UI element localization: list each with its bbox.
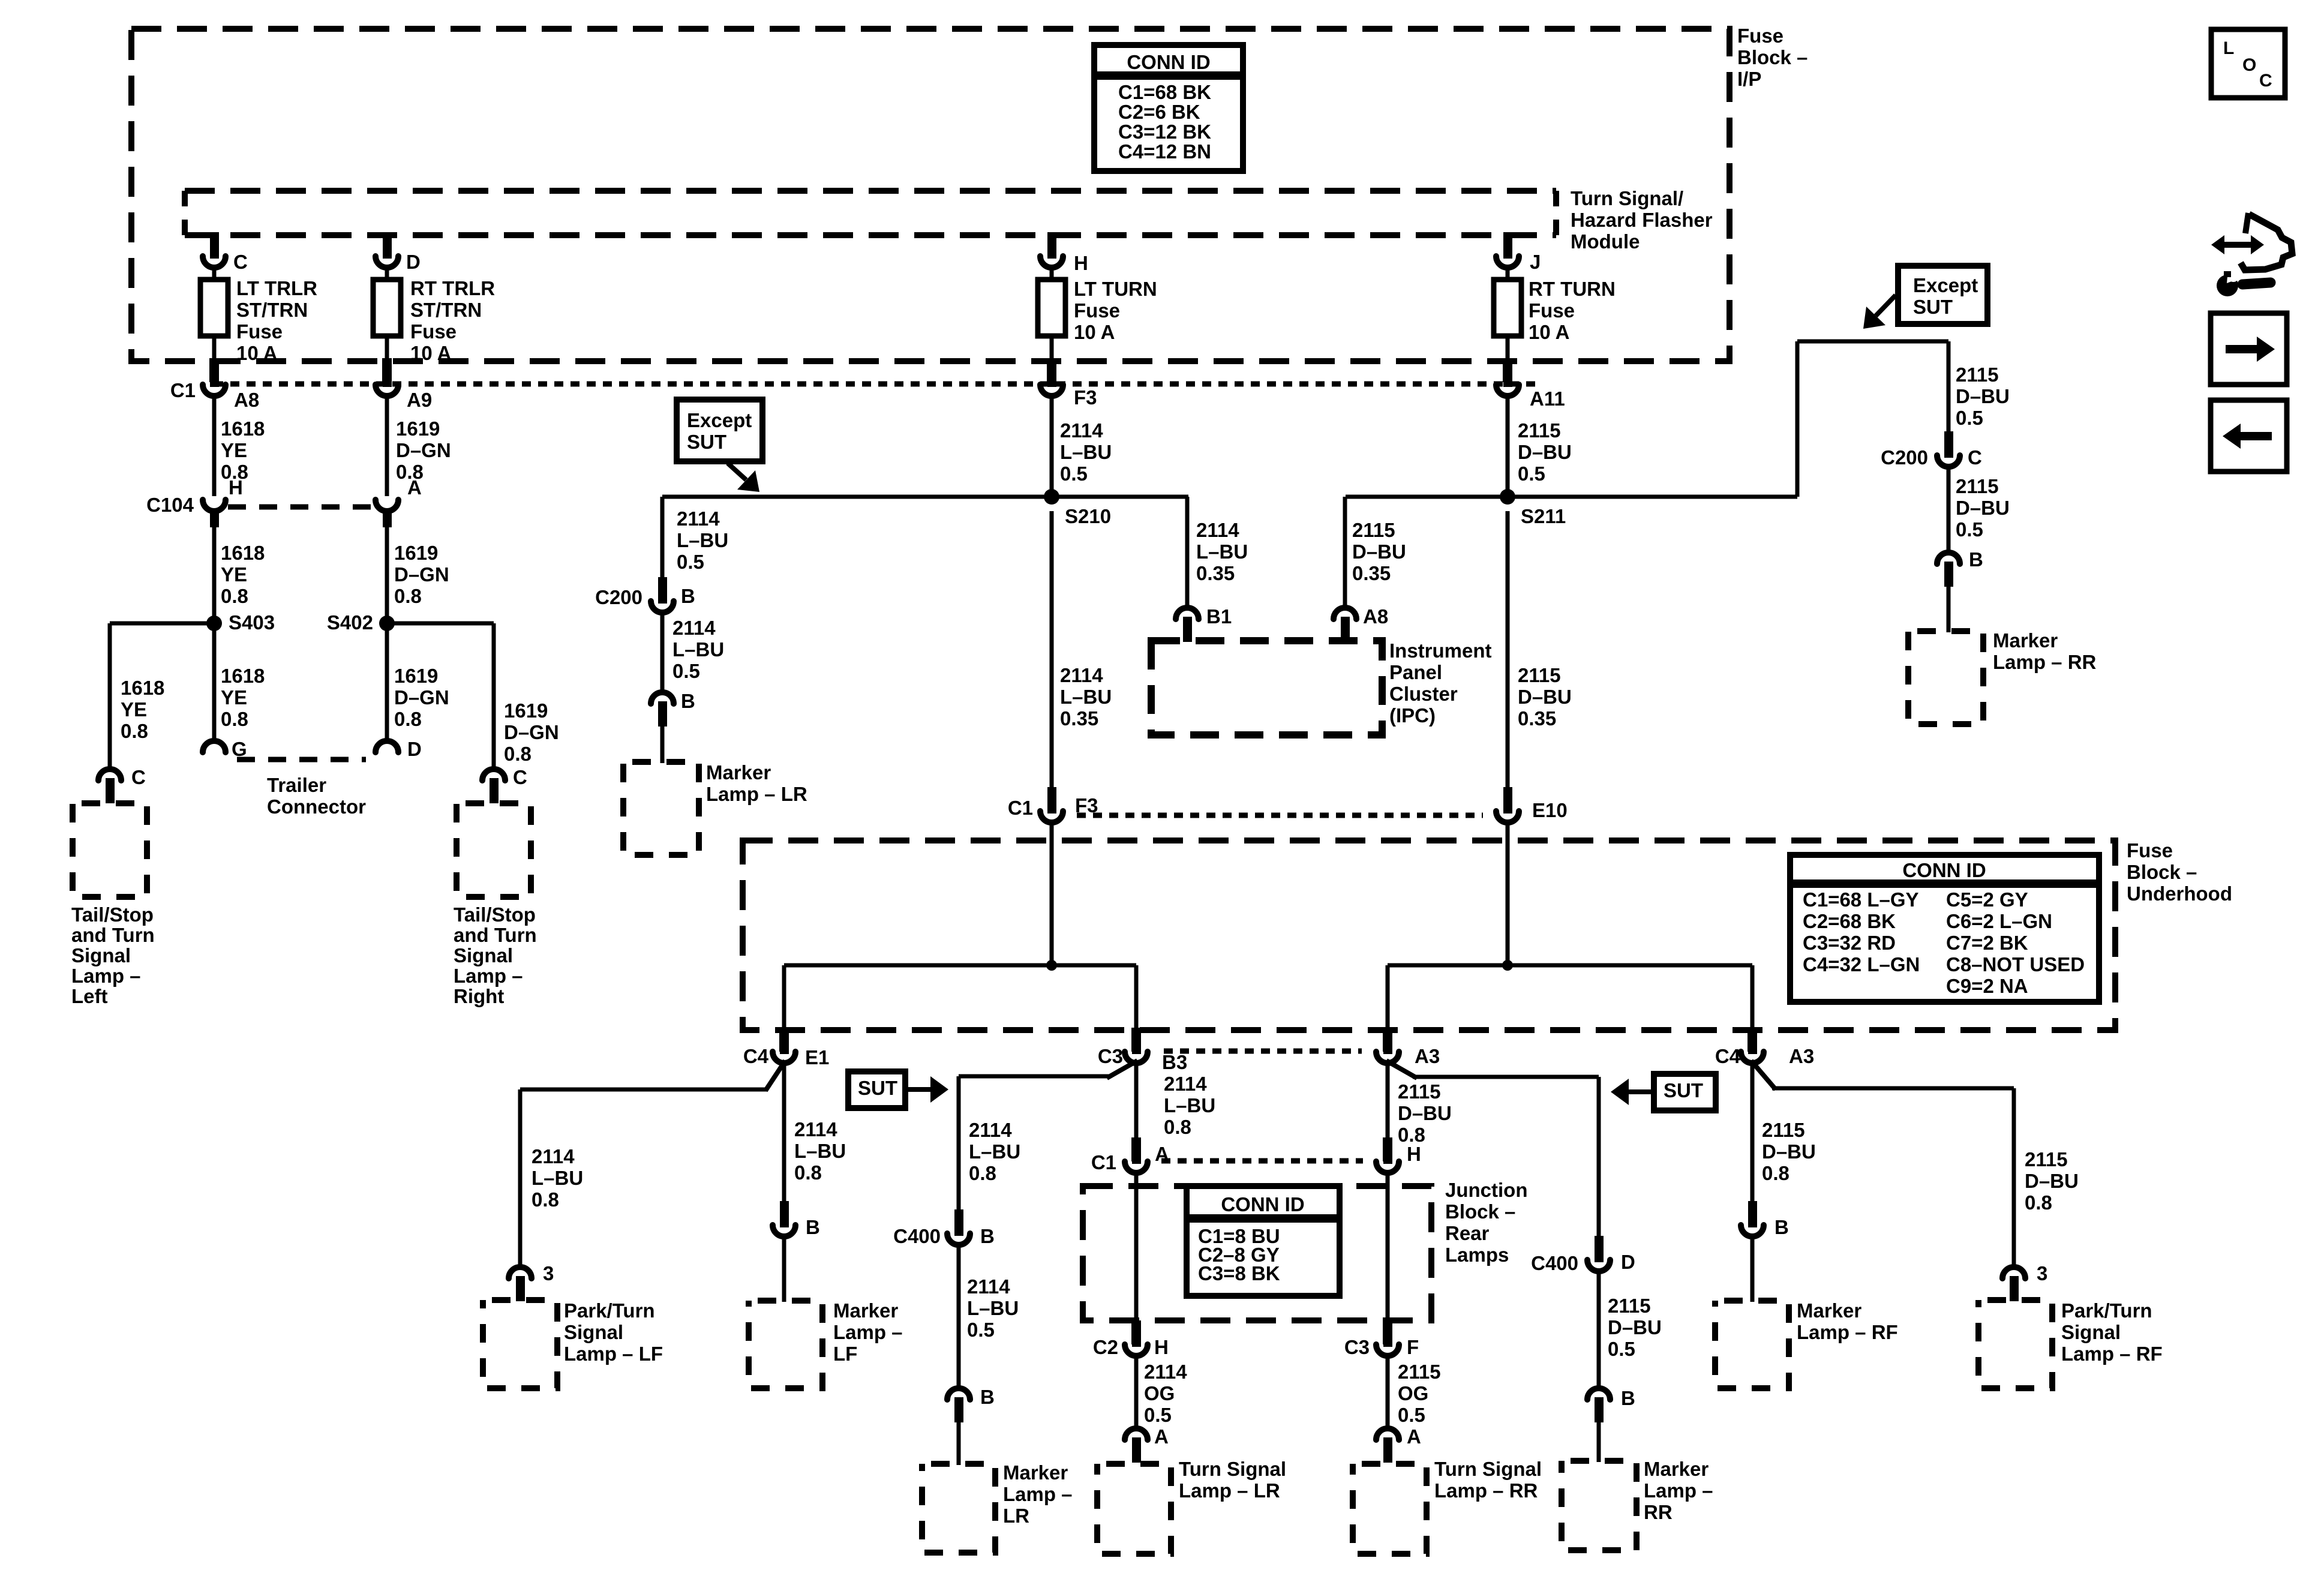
svg-text:Turn Signal: Turn Signal (1434, 1458, 1542, 1480)
svg-text:Block –: Block – (2127, 861, 2197, 883)
svg-text:C: C (513, 766, 527, 788)
svg-text:D–BU: D–BU (1956, 497, 2010, 519)
svg-text:I/P: I/P (1737, 68, 1761, 90)
svg-text:0.35: 0.35 (1196, 562, 1235, 584)
svg-text:C8–NOT USED: C8–NOT USED (1946, 953, 2085, 975)
svg-text:Left: Left (71, 985, 108, 1007)
svg-text:1619: 1619 (394, 665, 438, 687)
svg-text:L–BU: L–BU (1060, 686, 1112, 708)
svg-text:0.5: 0.5 (1518, 463, 1545, 485)
svg-text:Hazard Flasher: Hazard Flasher (1571, 209, 1713, 231)
svg-text:0.5: 0.5 (1144, 1404, 1172, 1426)
svg-text:L–BU: L–BU (969, 1140, 1020, 1163)
svg-text:2114: 2114 (967, 1275, 1010, 1298)
svg-text:0.35: 0.35 (1352, 562, 1391, 584)
svg-text:A9: A9 (407, 389, 432, 411)
svg-text:D–BU: D–BU (1518, 686, 1572, 708)
svg-text:0.8: 0.8 (1164, 1116, 1191, 1138)
svg-text:2115: 2115 (1518, 664, 1561, 686)
svg-text:2114: 2114 (794, 1118, 837, 1140)
svg-text:0.5: 0.5 (1956, 518, 1983, 541)
svg-text:RT TRLR: RT TRLR (410, 277, 495, 299)
svg-text:1618: 1618 (121, 677, 164, 699)
svg-text:F: F (1407, 1336, 1419, 1358)
svg-text:A: A (1154, 1425, 1169, 1448)
svg-text:0.5: 0.5 (1398, 1404, 1425, 1426)
svg-text:(IPC): (IPC) (1389, 704, 1436, 727)
svg-text:Marker: Marker (833, 1299, 898, 1322)
svg-text:A3: A3 (1415, 1045, 1440, 1067)
svg-text:0.8: 0.8 (2025, 1191, 2052, 1214)
svg-text:C: C (131, 766, 146, 788)
svg-text:Cluster: Cluster (1389, 683, 1458, 705)
svg-text:A: A (1155, 1143, 1169, 1165)
svg-text:YE: YE (121, 698, 147, 721)
svg-text:LF: LF (833, 1343, 857, 1365)
svg-text:C7=2 BK: C7=2 BK (1946, 932, 2028, 954)
svg-text:2115: 2115 (1608, 1295, 1651, 1317)
svg-text:C: C (233, 251, 248, 273)
svg-text:1619: 1619 (504, 700, 548, 722)
svg-text:Lamp – RF: Lamp – RF (1797, 1321, 1898, 1343)
svg-text:H: H (1074, 252, 1088, 274)
svg-text:Fuse: Fuse (236, 320, 283, 343)
svg-text:B: B (1774, 1216, 1789, 1238)
svg-text:2114: 2114 (1060, 664, 1103, 686)
svg-text:Lamp –: Lamp – (71, 965, 141, 987)
svg-text:0.35: 0.35 (1518, 707, 1556, 730)
svg-text:3: 3 (2037, 1262, 2047, 1284)
svg-text:C1: C1 (1091, 1151, 1116, 1173)
svg-text:C1: C1 (170, 379, 196, 401)
svg-text:C200: C200 (595, 586, 642, 608)
svg-text:Underhood: Underhood (2127, 882, 2232, 905)
svg-text:1618: 1618 (221, 542, 265, 564)
svg-text:A11: A11 (1530, 388, 1565, 410)
svg-text:Lamp –: Lamp – (833, 1321, 903, 1343)
svg-text:B1: B1 (1206, 605, 1232, 628)
svg-text:H: H (1407, 1143, 1421, 1165)
svg-text:Rear: Rear (1445, 1222, 1490, 1244)
svg-text:Module: Module (1571, 230, 1640, 253)
svg-text:B3: B3 (1162, 1051, 1187, 1073)
svg-text:A8: A8 (1363, 605, 1388, 628)
svg-text:Lamps: Lamps (1445, 1244, 1509, 1266)
svg-text:Signal: Signal (454, 944, 513, 966)
svg-text:2114: 2114 (1164, 1073, 1207, 1095)
svg-text:L–BU: L–BU (1164, 1094, 1215, 1116)
svg-text:L–BU: L–BU (1060, 441, 1112, 463)
svg-text:Block –: Block – (1445, 1200, 1515, 1223)
svg-text:Right: Right (454, 985, 504, 1007)
svg-text:L–BU: L–BU (677, 529, 728, 551)
svg-text:0.35: 0.35 (1060, 707, 1098, 730)
svg-text:2114: 2114 (532, 1145, 575, 1167)
svg-text:C4=12 BN: C4=12 BN (1118, 140, 1211, 163)
svg-text:Marker: Marker (1644, 1458, 1709, 1480)
svg-text:H: H (229, 476, 243, 499)
svg-text:D: D (406, 251, 421, 273)
svg-text:Lamp –: Lamp – (454, 965, 523, 987)
svg-text:C: C (2259, 71, 2272, 91)
svg-text:Park/Turn: Park/Turn (2061, 1299, 2152, 1322)
svg-text:2114: 2114 (969, 1119, 1012, 1141)
svg-text:Connector: Connector (267, 795, 366, 818)
svg-text:YE: YE (221, 563, 247, 586)
svg-text:C4: C4 (1715, 1045, 1741, 1067)
svg-text:Fuse: Fuse (1737, 25, 1783, 47)
svg-text:0.8: 0.8 (794, 1161, 822, 1184)
svg-text:B: B (1969, 548, 1983, 571)
svg-text:2114: 2114 (1144, 1361, 1187, 1383)
svg-text:C200: C200 (1881, 446, 1928, 469)
svg-text:D–BU: D–BU (2025, 1170, 2079, 1192)
svg-text:J: J (1530, 251, 1541, 273)
svg-text:C6=2 L–GN: C6=2 L–GN (1946, 910, 2052, 932)
svg-text:Fuse: Fuse (1529, 299, 1575, 322)
svg-text:0.5: 0.5 (967, 1319, 995, 1341)
svg-text:Tail/Stop: Tail/Stop (454, 903, 536, 926)
svg-text:C: C (1968, 446, 1982, 469)
svg-text:10 A: 10 A (410, 342, 451, 364)
svg-text:0.8: 0.8 (969, 1162, 996, 1184)
svg-text:RT TURN: RT TURN (1529, 278, 1616, 300)
svg-text:A8: A8 (234, 389, 259, 411)
svg-text:0.5: 0.5 (1956, 407, 1983, 429)
svg-text:C3: C3 (1098, 1045, 1123, 1067)
svg-text:Block –: Block – (1737, 46, 1807, 68)
svg-text:O: O (2242, 55, 2256, 75)
svg-text:Trailer: Trailer (267, 774, 326, 796)
svg-text:L–BU: L–BU (1196, 541, 1248, 563)
svg-text:0.8: 0.8 (221, 585, 248, 607)
svg-text:Lamp – RR: Lamp – RR (1434, 1479, 1538, 1502)
svg-text:D–GN: D–GN (394, 563, 449, 586)
svg-text:YE: YE (221, 686, 247, 709)
svg-text:D: D (1621, 1251, 1635, 1273)
svg-text:C3=8 BK: C3=8 BK (1198, 1262, 1280, 1284)
svg-text:E10: E10 (1532, 799, 1568, 821)
svg-text:2114: 2114 (677, 508, 720, 530)
svg-text:D–BU: D–BU (1398, 1102, 1452, 1124)
svg-text:A3: A3 (1789, 1045, 1814, 1067)
svg-text:2114: 2114 (1060, 419, 1103, 442)
svg-text:0.8: 0.8 (504, 743, 532, 765)
svg-text:Junction: Junction (1445, 1179, 1528, 1201)
svg-text:Fuse: Fuse (2127, 839, 2173, 861)
svg-text:L: L (2223, 38, 2234, 58)
svg-text:D–BU: D–BU (1956, 385, 2010, 407)
svg-text:C1=68 BK: C1=68 BK (1118, 81, 1211, 103)
svg-text:S211: S211 (1521, 505, 1566, 527)
svg-text:0.5: 0.5 (677, 551, 704, 573)
svg-text:D–GN: D–GN (504, 721, 559, 743)
svg-text:Except: Except (1913, 274, 1978, 296)
svg-text:L–BU: L–BU (794, 1140, 846, 1162)
svg-text:1618: 1618 (221, 418, 265, 440)
svg-text:Lamp – RF: Lamp – RF (2061, 1343, 2163, 1365)
svg-text:C1: C1 (1008, 797, 1033, 819)
svg-text:2115: 2115 (1398, 1080, 1441, 1103)
svg-text:Lamp – LR: Lamp – LR (1179, 1479, 1280, 1502)
svg-text:LR: LR (1003, 1505, 1029, 1527)
svg-text:0.5: 0.5 (672, 660, 700, 682)
svg-text:2114: 2114 (672, 617, 716, 639)
svg-text:H: H (1154, 1336, 1169, 1358)
svg-text:Lamp –: Lamp – (1003, 1483, 1073, 1505)
svg-text:1619: 1619 (394, 542, 438, 564)
svg-text:S210: S210 (1065, 505, 1111, 527)
svg-text:C3=32 RD: C3=32 RD (1803, 932, 1896, 954)
svg-text:D: D (407, 738, 422, 760)
svg-text:SUT: SUT (858, 1077, 897, 1099)
svg-text:1618: 1618 (221, 665, 265, 687)
svg-text:2115: 2115 (2025, 1148, 2068, 1170)
svg-text:0.8: 0.8 (221, 708, 248, 730)
svg-text:Tail/Stop: Tail/Stop (71, 903, 154, 926)
svg-text:B: B (980, 1225, 995, 1247)
svg-text:C2=68 BK: C2=68 BK (1803, 910, 1896, 932)
svg-text:E1: E1 (805, 1046, 829, 1068)
svg-text:F3: F3 (1074, 386, 1097, 409)
svg-text:Except: Except (687, 409, 752, 431)
svg-text:Turn Signal/: Turn Signal/ (1571, 187, 1683, 209)
svg-text:and Turn: and Turn (454, 924, 537, 946)
svg-text:0.8: 0.8 (394, 708, 422, 730)
svg-text:Park/Turn: Park/Turn (564, 1299, 655, 1322)
svg-text:A: A (407, 476, 422, 499)
svg-text:LT TURN: LT TURN (1074, 278, 1157, 300)
svg-text:1619: 1619 (396, 418, 440, 440)
svg-text:2115: 2115 (1956, 364, 1999, 386)
svg-text:A: A (1407, 1425, 1421, 1448)
svg-text:C4=32 L–GN: C4=32 L–GN (1803, 953, 1920, 975)
svg-text:C2=6 BK: C2=6 BK (1118, 101, 1200, 123)
svg-text:C3: C3 (1344, 1336, 1370, 1358)
svg-text:C400: C400 (893, 1225, 941, 1247)
svg-text:C4: C4 (743, 1045, 769, 1067)
svg-text:SUT: SUT (687, 431, 726, 453)
svg-text:C9=2 NA: C9=2 NA (1946, 975, 2028, 997)
svg-text:D–BU: D–BU (1352, 541, 1406, 563)
svg-text:0.5: 0.5 (1060, 463, 1088, 485)
svg-text:D–GN: D–GN (394, 686, 449, 709)
svg-text:B: B (681, 585, 695, 607)
svg-text:G: G (232, 738, 247, 760)
svg-text:RR: RR (1644, 1501, 1673, 1523)
svg-text:Instrument: Instrument (1389, 640, 1492, 662)
svg-text:LT TRLR: LT TRLR (236, 277, 317, 299)
svg-text:Panel: Panel (1389, 661, 1442, 683)
svg-text:Turn Signal: Turn Signal (1179, 1458, 1286, 1480)
svg-text:D–BU: D–BU (1518, 441, 1572, 463)
svg-text:L–BU: L–BU (532, 1167, 583, 1189)
svg-text:S402: S402 (327, 611, 373, 634)
svg-text:C3=12 BK: C3=12 BK (1118, 121, 1211, 143)
svg-text:2115: 2115 (1398, 1361, 1441, 1383)
svg-text:C400: C400 (1531, 1252, 1578, 1274)
svg-text:B: B (1621, 1387, 1635, 1409)
svg-text:F3: F3 (1075, 794, 1098, 816)
svg-text:Lamp –: Lamp – (1644, 1479, 1713, 1502)
svg-text:D–BU: D–BU (1762, 1140, 1816, 1163)
svg-text:3: 3 (543, 1262, 554, 1284)
svg-text:ST/TRN: ST/TRN (410, 299, 482, 321)
svg-text:CONN ID: CONN ID (1127, 51, 1210, 73)
svg-text:Signal: Signal (2061, 1321, 2121, 1343)
svg-text:Fuse: Fuse (1074, 299, 1120, 322)
svg-text:Marker: Marker (1993, 629, 2058, 652)
svg-text:L–BU: L–BU (672, 638, 724, 661)
svg-text:CONN ID: CONN ID (1902, 859, 1986, 881)
svg-text:2114: 2114 (1196, 519, 1239, 541)
svg-text:CONN ID: CONN ID (1221, 1193, 1304, 1215)
svg-text:2115: 2115 (1956, 475, 1999, 497)
svg-text:0.8: 0.8 (532, 1188, 559, 1211)
svg-text:Lamp – LF: Lamp – LF (564, 1343, 663, 1365)
svg-text:SUT: SUT (1664, 1079, 1703, 1101)
svg-text:10 A: 10 A (1074, 321, 1115, 343)
svg-text:Marker: Marker (706, 761, 771, 784)
svg-text:Signal: Signal (71, 944, 131, 966)
svg-text:D–BU: D–BU (1608, 1316, 1662, 1338)
svg-text:B: B (681, 690, 695, 712)
svg-text:ST/TRN: ST/TRN (236, 299, 308, 321)
svg-text:Signal: Signal (564, 1321, 623, 1343)
svg-text:B: B (806, 1216, 820, 1238)
svg-text:2115: 2115 (1518, 419, 1561, 442)
svg-text:0.8: 0.8 (394, 585, 422, 607)
svg-text:C104: C104 (146, 494, 194, 516)
svg-text:YE: YE (221, 439, 247, 461)
svg-text:Marker: Marker (1797, 1299, 1861, 1322)
svg-text:0.8: 0.8 (1762, 1162, 1789, 1184)
svg-text:B: B (980, 1386, 995, 1408)
svg-text:10 A: 10 A (1529, 321, 1569, 343)
svg-text:Fuse: Fuse (410, 320, 457, 343)
svg-text:Lamp – RR: Lamp – RR (1993, 651, 2097, 673)
svg-text:C1=68 L–GY: C1=68 L–GY (1803, 888, 1919, 911)
svg-text:D–GN: D–GN (396, 439, 451, 461)
svg-text:2115: 2115 (1762, 1119, 1805, 1141)
svg-text:C5=2 GY: C5=2 GY (1946, 888, 2028, 911)
svg-text:0.5: 0.5 (1608, 1338, 1635, 1360)
svg-text:C2: C2 (1093, 1336, 1118, 1358)
svg-text:Lamp – LR: Lamp – LR (706, 783, 807, 805)
svg-text:S403: S403 (229, 611, 275, 634)
svg-text:10 A: 10 A (236, 342, 277, 364)
svg-text:0.8: 0.8 (121, 720, 148, 742)
svg-text:OG: OG (1398, 1382, 1428, 1404)
svg-text:L–BU: L–BU (967, 1297, 1019, 1319)
svg-text:and Turn: and Turn (71, 924, 155, 946)
svg-text:Marker: Marker (1003, 1461, 1068, 1484)
svg-text:OG: OG (1144, 1382, 1175, 1404)
svg-text:SUT: SUT (1913, 296, 1953, 318)
svg-text:2115: 2115 (1352, 519, 1395, 541)
